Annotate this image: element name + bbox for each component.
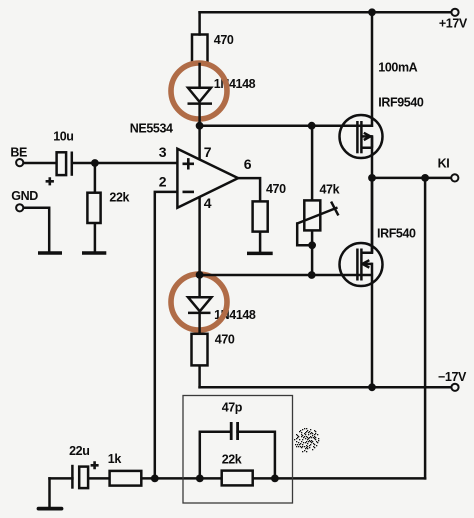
- svg-text:470: 470: [214, 33, 234, 47]
- svg-text:470: 470: [266, 182, 286, 196]
- wire: C3 left lead: [200, 432, 231, 479]
- wire: bottom feedback rail R5 to corner: [141, 477, 425, 480]
- wire: op-amp output to R4: [238, 178, 260, 201]
- wire: ground lead below C2: [48, 478, 51, 507]
- node: bottom rail / C3-R7 left: [196, 475, 204, 483]
- svg-text:2: 2: [159, 173, 167, 189]
- svg-text:IRF9540: IRF9540: [378, 96, 424, 110]
- wire: node B to D2 anode: [198, 275, 201, 297]
- wire: KI output line: [372, 177, 451, 180]
- wire: R6 bottom to -17V rail corner: [198, 365, 201, 387]
- capacitor C3 47p: [231, 422, 237, 440]
- node B: pin 4 / D2 junction: [196, 271, 204, 279]
- terminal BE: [16, 159, 23, 166]
- wire: node C down through R3: [94, 163, 97, 193]
- resistor R1 470 (top): [192, 35, 208, 65]
- wire: Q1 drain up to +17V rail: [371, 12, 374, 125]
- svg-text:4: 4: [204, 195, 212, 211]
- wire: R3 bottom to ground: [94, 223, 97, 251]
- wire: D2 cathode to R6: [198, 313, 201, 334]
- ground (GND input lead): [38, 251, 62, 255]
- resistor R6 470 (bottom diode chain): [192, 334, 208, 366]
- speckle artifact: [294, 428, 319, 452]
- node A: D1 cathode / gate line: [196, 122, 204, 130]
- svg-text:22k: 22k: [109, 190, 129, 204]
- wire: C2 to R5: [88, 477, 110, 480]
- ground (below R3 22k): [82, 251, 106, 255]
- wire: pot P1 top lead from gate line: [311, 126, 314, 201]
- wire: R4 bottom to ground: [259, 232, 262, 252]
- node: top rail / Q1 drain junction: [368, 8, 376, 16]
- diode D2 1N4148: [188, 297, 212, 313]
- transistor Q1 IRF9540: [340, 115, 383, 158]
- dashed compensation box: [183, 396, 293, 504]
- svg-text:10u: 10u: [53, 130, 73, 144]
- resistor R5 1k: [110, 471, 142, 486]
- potentiometer P1 wiper arrow: [297, 202, 338, 224]
- svg-text:6: 6: [244, 156, 252, 172]
- node: -17V rail / Q2 source junction: [368, 383, 376, 391]
- svg-text:22u: 22u: [69, 444, 89, 458]
- wire: bottom rail ground corner to C2: [50, 477, 73, 480]
- wire: C3 right lead: [238, 432, 275, 479]
- resistor R7 22k (feedback, in box): [222, 471, 253, 486]
- wire: -17V bottom rail: [200, 386, 452, 389]
- terminal -17V: [451, 384, 458, 391]
- svg-text:+17V: +17V: [439, 17, 468, 31]
- capacitor C2 22u (electrolytic): [72, 465, 88, 489]
- C2 polarity plus: [91, 461, 99, 469]
- op-amp U1 - input mark: [183, 191, 195, 194]
- capacitor C1 10u (electrolytic): [57, 152, 72, 176]
- wire: wiper return of P1: [297, 224, 312, 246]
- svg-text:IRF540: IRF540: [377, 227, 416, 241]
- wire: Q2 source down to -17V rail: [371, 264, 374, 387]
- terminal +17V: [451, 9, 458, 16]
- node: bottom rail / pin 2 tap: [151, 475, 159, 483]
- wire: +17V top rail: [200, 11, 452, 14]
- wire: C1 to node C and op-amp pin 3: [73, 162, 177, 165]
- svg-text:47p: 47p: [222, 401, 243, 415]
- potentiometer P1 47k body: [304, 200, 320, 230]
- terminal KI: [451, 174, 458, 181]
- highlight circle around D2: [171, 274, 227, 330]
- wire: feedback tap from KI down to bottom rail: [424, 178, 427, 479]
- svg-text:7: 7: [204, 144, 212, 160]
- svg-text:1k: 1k: [108, 452, 122, 466]
- resistor R4 470 (op-amp output): [253, 201, 268, 231]
- wire: Q1 source down to KI node: [371, 136, 374, 178]
- wire: pin 7 supply lead into op-amp: [198, 126, 201, 160]
- wire: pot P1 bottom lead to wiper node: [311, 230, 314, 245]
- C1 polarity plus: [46, 177, 54, 185]
- wire: pin 2 feedback lead: [155, 192, 177, 479]
- ground (below C2 22u): [39, 507, 62, 511]
- svg-text:−17V: −17V: [438, 370, 467, 384]
- wire: wiper node down to gate line of Q2: [311, 245, 314, 275]
- svg-text:100mA: 100mA: [378, 61, 417, 75]
- wire: gate line of Q1 (node A to MOSFET): [200, 124, 372, 127]
- svg-text:1N4148: 1N4148: [214, 77, 256, 91]
- node: bottom rail / C3-R7 right: [271, 475, 279, 483]
- node: KI / Q1 source junction: [368, 174, 376, 182]
- ground (below R4 470): [247, 252, 273, 256]
- svg-text:NE5534: NE5534: [130, 122, 173, 136]
- terminal GND: [16, 204, 23, 211]
- node C: input / R3: [91, 159, 99, 167]
- wire: gate line of Q2 (node B to MOSFET): [200, 274, 372, 277]
- svg-text:47k: 47k: [320, 183, 340, 197]
- svg-text:3: 3: [159, 144, 167, 160]
- svg-text:22k: 22k: [222, 452, 242, 466]
- wire: BE terminal to C1: [23, 162, 56, 165]
- wire: KI node down to Q2 drain: [371, 178, 374, 253]
- svg-text:BE: BE: [10, 146, 27, 160]
- diode D1 1N4148: [188, 88, 213, 104]
- highlight circle around D1: [171, 63, 227, 119]
- wire: pin 4 lead from op-amp to node B: [198, 197, 201, 275]
- node: pot wiper junction: [308, 241, 316, 249]
- transistor Q2 IRF540: [340, 178, 383, 286]
- wire: R1 bottom to D1 anode: [198, 64, 201, 88]
- wire: GND terminal lead: [23, 208, 49, 252]
- node: gate line / pot top: [308, 122, 316, 130]
- wire: D1 cathode to node A: [198, 104, 201, 126]
- svg-text:KI: KI: [438, 157, 450, 171]
- svg-text:470: 470: [215, 332, 235, 346]
- node: gate line Q2 / pot bottom: [308, 271, 316, 279]
- op-amp U1 NE5534: [177, 149, 238, 208]
- wire: left spine top rail corner down to R1: [198, 12, 201, 34]
- svg-text:GND: GND: [11, 189, 38, 203]
- resistor R3 22k (input): [87, 193, 100, 223]
- op-amp U1 + input mark: [183, 158, 195, 169]
- node: KI / feedback tap: [421, 174, 429, 182]
